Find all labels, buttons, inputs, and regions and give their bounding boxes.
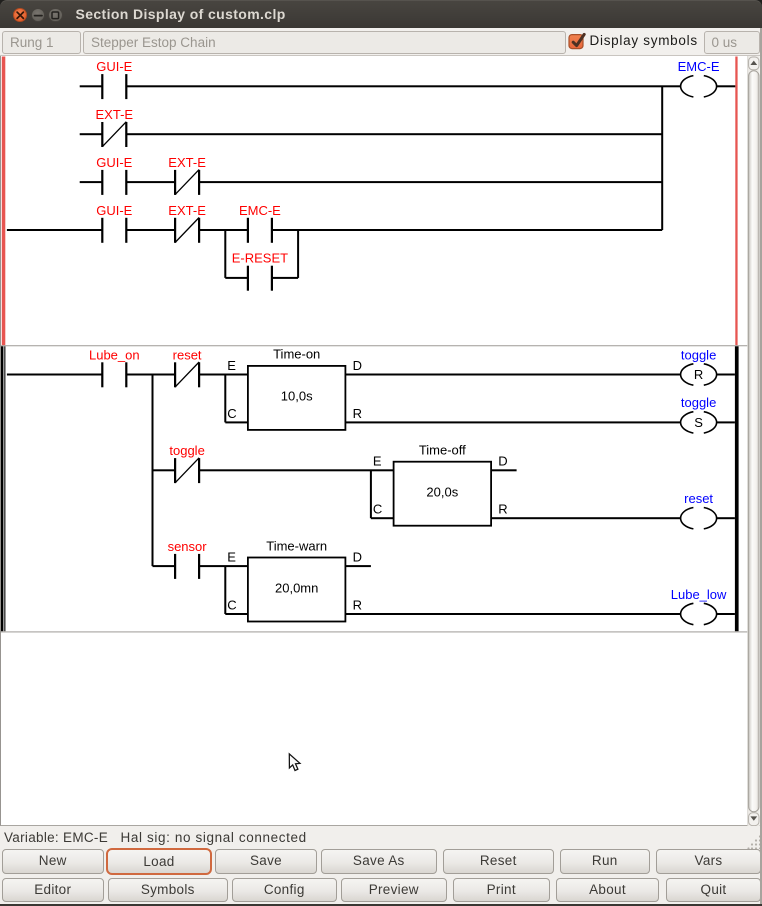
minimize button xyxy=(31,8,46,23)
coil toggle R (reset coil) xyxy=(681,347,717,385)
close button xyxy=(13,8,28,23)
svg-text:toggle: toggle xyxy=(681,395,716,410)
coil reset (rung2 output) xyxy=(681,491,717,529)
wire coil toggle R to right rail xyxy=(717,374,735,376)
wire branch to sensor contact xyxy=(153,565,176,567)
status bar xyxy=(0,826,762,849)
wire rung1 row4 between contacts xyxy=(126,229,175,231)
right power rail (rung 1, red) xyxy=(735,57,737,346)
svg-text:20,0s: 20,0s xyxy=(426,485,458,500)
svg-text:E: E xyxy=(227,358,236,373)
wire branch to E-RESET contact xyxy=(225,277,248,279)
svg-text:C: C xyxy=(227,406,236,421)
scan time entry xyxy=(704,31,760,55)
svg-text:Time-on: Time-on xyxy=(273,347,320,362)
contact EXT-E (rung1 row4, NC) xyxy=(168,203,206,243)
contact sensor (rung2 row5, NO) xyxy=(168,539,208,579)
rung title entry xyxy=(83,31,566,55)
svg-text:E-RESET: E-RESET xyxy=(232,251,288,266)
E/C connector vertical (Time-off) xyxy=(370,470,372,518)
contact EXT-E (rung1 row2, NC) xyxy=(96,107,134,147)
svg-text:EXT-E: EXT-E xyxy=(96,107,134,122)
branch vertical (rung2 sub-rows) xyxy=(152,375,154,567)
wire Time-off D output stub xyxy=(491,469,516,471)
svg-text:C: C xyxy=(373,502,382,517)
svg-text:EXT-E: EXT-E xyxy=(168,203,206,218)
wire toggle contact to timer Time-off xyxy=(199,469,394,471)
wire Time-warn D output stub xyxy=(345,565,371,567)
branch vertical right (E-RESET parallel) xyxy=(297,230,299,278)
left power rail (rung 1, red) xyxy=(2,57,6,346)
svg-text:toggle: toggle xyxy=(681,347,716,362)
wire Time-off R output to coil xyxy=(491,517,680,519)
svg-text:R: R xyxy=(353,406,362,421)
wire Time-on D output to coil xyxy=(345,374,680,376)
coil EMC-E (rung1 output) xyxy=(678,59,720,97)
wire C input (Time-on) xyxy=(225,421,249,423)
timer T2 Time-off (20,0s) xyxy=(373,443,508,526)
wire rung1 row4 into parallel block xyxy=(199,229,248,231)
svg-text:sensor: sensor xyxy=(168,539,208,554)
svg-text:D: D xyxy=(353,550,362,565)
maximize button xyxy=(48,8,63,23)
svg-text:S: S xyxy=(694,415,703,430)
contact GUI-E (rung1 row1, NO) xyxy=(96,59,132,99)
contact E-RESET (rung1 row5, NO) xyxy=(232,251,288,291)
wire E-RESET contact to branch xyxy=(272,277,298,279)
contact GUI-E (rung1 row3, NO) xyxy=(96,155,132,195)
svg-text:E: E xyxy=(227,550,236,565)
right power rail (rung 2, black, current rung) xyxy=(735,346,739,631)
contact Lube_on (rung2 row1, NO) xyxy=(89,347,140,387)
junction vertical joining rows 1-4 (rung1) xyxy=(661,86,663,230)
svg-text:GUI-E: GUI-E xyxy=(96,155,132,170)
svg-text:GUI-E: GUI-E xyxy=(96,59,132,74)
Load button with focus ring xyxy=(106,848,212,876)
E/C connector vertical (Time-warn) xyxy=(224,566,226,614)
wire coil Lube_low to right rail xyxy=(717,613,735,615)
wire coil toggle S to right rail xyxy=(717,421,735,423)
contact reset (rung2 row1, NC) xyxy=(173,347,202,387)
wire coil EMC-E to right rail xyxy=(717,85,736,87)
wire Time-warn R output to coil xyxy=(345,613,680,615)
timer T3 Time-warn (20,0mn) xyxy=(227,538,362,621)
svg-text:D: D xyxy=(498,454,507,469)
svg-text:reset: reset xyxy=(684,491,713,506)
toolbar xyxy=(0,28,762,56)
wire rung1 row1 into contact xyxy=(80,85,103,87)
wire sensor contact to timer Time-warn xyxy=(199,565,249,567)
wire rung1 row4 to junction xyxy=(272,229,662,231)
svg-text:GUI-E: GUI-E xyxy=(96,203,132,218)
rung number entry xyxy=(2,31,81,55)
wire rung1 row3 between contacts xyxy=(126,181,175,183)
svg-text:R: R xyxy=(353,597,362,612)
wire rung1 row2 into contact xyxy=(80,133,103,135)
wire branch to toggle contact xyxy=(153,469,176,471)
svg-text:C: C xyxy=(227,597,236,612)
svg-text:R: R xyxy=(694,367,703,382)
svg-text:toggle: toggle xyxy=(169,443,204,458)
svg-text:reset: reset xyxy=(173,347,202,362)
svg-text:D: D xyxy=(353,358,362,373)
wire rung1 row1 to coil xyxy=(126,85,680,87)
mouse cursor xyxy=(289,754,300,771)
wire rung1 row3 to junction xyxy=(199,181,662,183)
wire reset contact to timer Time-on xyxy=(199,374,249,376)
resize grip xyxy=(747,835,762,851)
vertical scrollbar xyxy=(748,56,760,827)
window title bar xyxy=(0,0,762,28)
svg-text:EMC-E: EMC-E xyxy=(239,203,281,218)
svg-text:Lube_low: Lube_low xyxy=(671,587,727,602)
wire rung1 row3 into contact xyxy=(80,181,103,183)
wire coil reset to right rail xyxy=(717,517,735,519)
wire left rail to Lube_on contact xyxy=(7,374,102,376)
timer T1 Time-on (10,0s) xyxy=(227,347,362,430)
wire rung1 row2 to junction xyxy=(126,133,662,135)
wire C input (Time-warn) xyxy=(225,613,249,615)
contact GUI-E (rung1 row4, NO) xyxy=(96,203,132,243)
E/C connector vertical (Time-on) xyxy=(224,375,226,423)
button rows xyxy=(0,849,762,906)
Display symbols checkbox xyxy=(566,30,588,54)
svg-text:20,0mn: 20,0mn xyxy=(275,580,318,595)
wire Lube_on to reset contact xyxy=(126,374,175,376)
wire C input (Time-off) xyxy=(371,517,395,519)
left power rail (rung 2, black, current rung) xyxy=(1,346,5,631)
wire Time-on R output to coil xyxy=(345,421,680,423)
svg-text:E: E xyxy=(373,454,382,469)
svg-text:Time-off: Time-off xyxy=(419,443,466,458)
svg-text:R: R xyxy=(498,502,507,517)
svg-text:EXT-E: EXT-E xyxy=(168,155,206,170)
wire left rail to contact (rung1 row4) xyxy=(7,229,102,231)
separator line between rung1 and rung2 xyxy=(1,345,748,346)
coil toggle S (set coil) xyxy=(681,395,717,433)
contact EMC-E (rung1 row4, NO) xyxy=(239,203,281,243)
window title xyxy=(76,6,286,22)
coil Lube_low (rung2 output) xyxy=(671,587,727,625)
branch vertical left (E-RESET parallel) xyxy=(224,230,226,278)
svg-text:EMC-E: EMC-E xyxy=(678,59,720,74)
contact EXT-E (rung1 row3, NC) xyxy=(168,155,206,195)
svg-text:10,0s: 10,0s xyxy=(281,389,313,404)
svg-text:Time-warn: Time-warn xyxy=(266,538,327,553)
svg-text:Lube_on: Lube_on xyxy=(89,347,140,362)
contact toggle (rung2 row3, NC) xyxy=(169,443,204,483)
separator line below rung2 xyxy=(1,631,748,632)
